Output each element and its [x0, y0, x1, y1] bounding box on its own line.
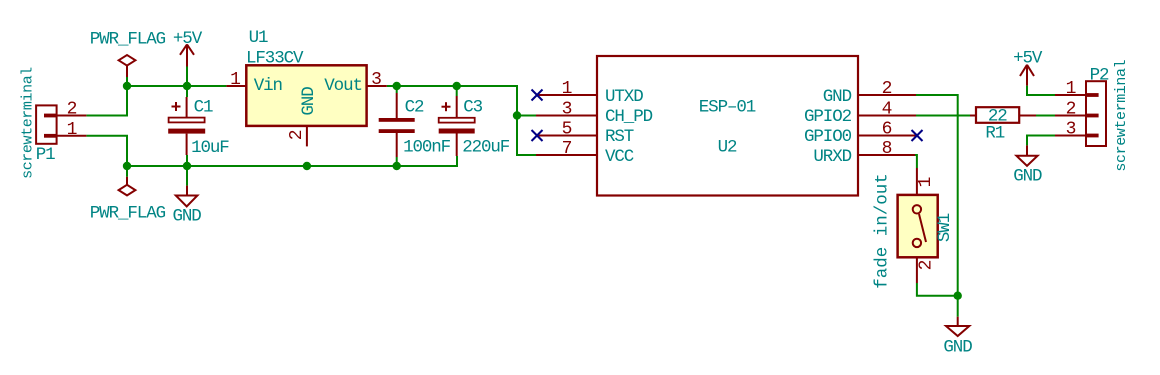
svg-text:GND: GND — [299, 87, 319, 116]
svg-text:1: 1 — [916, 177, 936, 187]
connector P2 — [1055, 81, 1106, 146]
svg-text:3: 3 — [562, 100, 572, 120]
svg-text:220uF: 220uF — [462, 138, 510, 158]
svg-text:100nF: 100nF — [403, 138, 451, 158]
svg-text:GND: GND — [823, 87, 852, 107]
power +5V right — [1020, 65, 1034, 86]
wire P1 pin1 — [86, 136, 127, 166]
wire +5V left stub — [186, 67, 188, 87]
junction node CH_PD branch — [513, 111, 521, 119]
PWR_FLAG bottom — [119, 177, 136, 196]
svg-text:Vin: Vin — [254, 76, 282, 96]
wire top rail left — [127, 85, 226, 87]
switch SW1 — [898, 168, 938, 283]
svg-text:UTXD: UTXD — [605, 87, 643, 107]
wire C1 bottom — [186, 155, 188, 166]
svg-text:P1: P1 — [36, 145, 55, 165]
capacitor C3 — [439, 96, 475, 156]
junction node bottom rail at P1 — [123, 162, 131, 170]
junction node bottom rail at U1 GND — [303, 162, 311, 170]
wire ESP pin8 to SW1 — [915, 155, 917, 168]
svg-text:C2: C2 — [405, 98, 424, 118]
svg-text:P2: P2 — [1090, 66, 1109, 86]
no-connect pin6 — [912, 130, 923, 141]
wire top rail right — [387, 86, 536, 155]
svg-text:screwterminal: screwterminal — [1113, 59, 1130, 171]
wire P2 pin3 to gnd — [1027, 136, 1055, 146]
svg-text:2: 2 — [1066, 100, 1076, 120]
wire C2 bottom — [396, 157, 398, 166]
svg-text:2: 2 — [67, 100, 77, 120]
svg-text:RST: RST — [605, 127, 634, 147]
power +5V left — [180, 44, 194, 66]
svg-text:SW1: SW1 — [935, 213, 955, 242]
wire bottom rail — [127, 156, 457, 166]
svg-text:8: 8 — [882, 139, 892, 159]
svg-text:C3: C3 — [463, 98, 482, 118]
wire C1 top — [186, 86, 188, 97]
svg-text:PWR_FLAG: PWR_FLAG — [90, 204, 166, 224]
wire +5V right to P2 pin1 — [1027, 86, 1055, 95]
junction node top rail at P1 — [123, 82, 131, 90]
svg-text:GPIO2: GPIO2 — [804, 107, 852, 127]
svg-text:GPIO0: GPIO0 — [804, 127, 852, 147]
wire ESP pin4 to R1 — [916, 115, 970, 117]
svg-text:3: 3 — [371, 70, 381, 90]
junction node SW1 GND — [954, 292, 962, 300]
wire R1 to P2 pin2 — [1036, 115, 1055, 117]
svg-text:GND: GND — [1013, 167, 1042, 187]
resistor R1 — [970, 107, 1036, 123]
svg-text:PWR_FLAG: PWR_FLAG — [90, 30, 166, 50]
svg-text:5: 5 — [562, 120, 572, 140]
IC U2 ESP-01 — [536, 56, 917, 196]
svg-text:screwterminal: screwterminal — [20, 67, 37, 179]
svg-text:GND: GND — [943, 338, 972, 358]
junction node top rail at C2 — [393, 82, 401, 90]
svg-text:+5V: +5V — [1013, 49, 1043, 69]
svg-text:3: 3 — [1066, 120, 1076, 140]
connector P1 — [36, 105, 86, 143]
svg-text:7: 7 — [562, 139, 572, 159]
regulator U1 — [226, 65, 386, 146]
junction node bottom rail at GND — [183, 162, 191, 170]
svg-text:1: 1 — [67, 120, 77, 140]
svg-text:U2: U2 — [718, 138, 737, 158]
no-connect pin5 — [532, 130, 543, 141]
wire C2 top — [396, 86, 398, 93]
svg-text:4: 4 — [882, 100, 892, 120]
wire C3 top — [456, 86, 458, 96]
PWR_FLAG top — [119, 55, 136, 77]
svg-text:2: 2 — [917, 260, 937, 270]
capacitor C2 — [379, 93, 415, 157]
svg-text:2: 2 — [287, 130, 307, 140]
wire SW1 bottom to junction — [917, 283, 958, 296]
svg-text:Vout: Vout — [324, 76, 362, 96]
svg-text:1: 1 — [562, 79, 572, 99]
svg-text:1: 1 — [230, 70, 240, 90]
svg-text:CH_PD: CH_PD — [605, 107, 653, 127]
svg-text:+5V: +5V — [173, 29, 203, 49]
svg-text:C1: C1 — [194, 98, 213, 118]
wire gnd left stub — [186, 166, 188, 186]
svg-text:1: 1 — [1066, 79, 1076, 99]
svg-text:LF33CV: LF33CV — [246, 48, 304, 68]
wire pwrflag top stub — [126, 77, 128, 86]
svg-text:fade in/out: fade in/out — [873, 173, 893, 289]
svg-text:GND: GND — [172, 206, 201, 226]
svg-text:U1: U1 — [249, 28, 268, 48]
svg-text:R1: R1 — [985, 124, 1004, 144]
wire CH_PD branch — [517, 115, 536, 117]
svg-text:2: 2 — [882, 79, 892, 99]
svg-text:URXD: URXD — [813, 147, 851, 167]
ground GND mid right — [1016, 145, 1037, 166]
junction node top rail at C1 — [183, 82, 191, 90]
wire pwrflag bottom stub — [126, 166, 128, 177]
svg-text:ESP–01: ESP–01 — [699, 98, 756, 118]
junction node top rail at C3 — [453, 82, 461, 90]
svg-text:6: 6 — [882, 120, 892, 140]
ground GND bottom — [946, 317, 969, 336]
svg-text:10uF: 10uF — [191, 138, 229, 158]
wire gnd bottom stub — [957, 296, 959, 317]
wire P1 pin2 — [86, 86, 127, 116]
svg-text:VCC: VCC — [605, 147, 634, 167]
ground GND left — [176, 186, 198, 207]
capacitor C1 — [168, 97, 205, 155]
wire ESP pin2 to GND net — [916, 95, 958, 296]
junction node bottom rail at C2 — [393, 162, 401, 170]
no-connect pin1 — [532, 90, 543, 101]
